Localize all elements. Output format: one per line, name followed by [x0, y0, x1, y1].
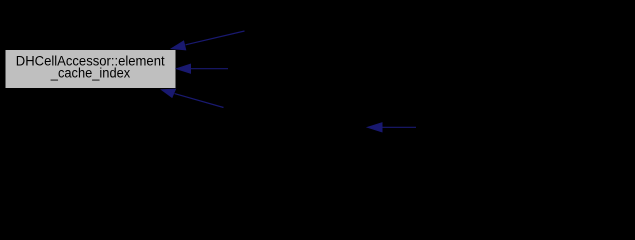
svg-text:_cache_index: _cache_index — [50, 65, 131, 80]
